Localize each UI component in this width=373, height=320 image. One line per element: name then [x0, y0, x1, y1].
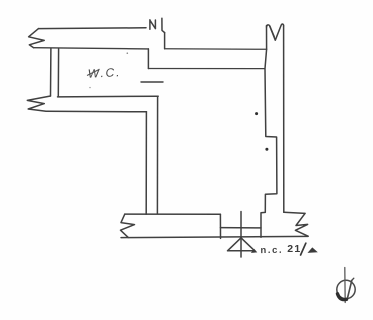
faint speck: [127, 52, 129, 54]
door swing triangle: [228, 238, 255, 251]
north symbol slanted needle: [347, 281, 352, 301]
wall top-right outer line: [165, 48, 267, 51]
north symbol vertical needle: [344, 268, 346, 303]
wall lower-left outer horizontal: [46, 110, 147, 113]
door axis vertical line: [240, 212, 242, 258]
door threshold line: [220, 227, 261, 229]
bottom-right outer ledge: [284, 212, 305, 213]
label slash: [301, 243, 306, 255]
corridor top inner line: [148, 68, 264, 70]
ink dot upper: [255, 112, 258, 115]
north symbol circle: [337, 280, 355, 298]
wall left outer line: [50, 48, 52, 96]
ink dot lower: [265, 148, 268, 151]
north symbol thick base arc: [338, 294, 347, 300]
right wall inner stepped line: [261, 26, 277, 238]
north symbol tick: [351, 278, 354, 281]
wall drop after break: [164, 33, 166, 49]
W.C. left wall inner vertical: [57, 49, 59, 97]
break symbol bottom-right: [295, 213, 308, 236]
svg-text:n.c.: n.c.: [260, 245, 283, 256]
break symbol top-left: [29, 29, 45, 48]
faint speck lower: [89, 87, 90, 88]
corridor left wall outer vertical: [145, 112, 147, 214]
break symbol mid-top N shape: [150, 18, 165, 32]
break symbol top-right M inner stroke: [270, 26, 274, 36]
svg-text:21: 21: [287, 243, 301, 255]
label a triangle: [308, 247, 318, 253]
W.C. W strike stroke: [87, 70, 99, 76]
bottom wall top line: [125, 213, 221, 215]
wall top inner line (W.C. top): [34, 48, 149, 49]
dash mark right of W.C.: [141, 81, 163, 83]
W.C. right wall vertical: [147, 49, 149, 69]
break symbol top-right M: [267, 24, 284, 40]
break symbol bottom-left: [121, 214, 135, 237]
corridor left wall inner vertical: [156, 96, 158, 213]
door jamb left vertical: [219, 214, 221, 238]
break symbol mid-left: [27, 96, 50, 111]
wall top outer line: [39, 27, 147, 30]
bottom wall bottom line: [121, 236, 308, 237]
right wall outer vertical: [283, 26, 285, 212]
W.C. bottom wall inner line: [58, 95, 159, 98]
door triangle corner blob: [251, 249, 257, 253]
